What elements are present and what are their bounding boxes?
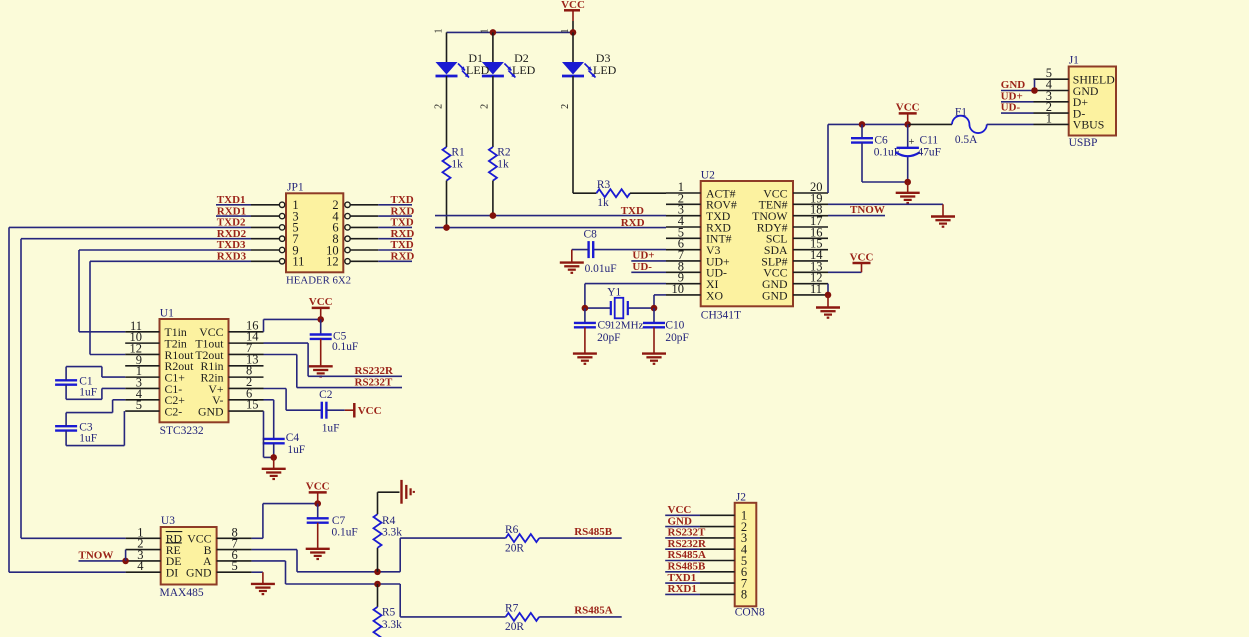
svg-text:RS485B: RS485B: [668, 561, 707, 573]
svg-text:1: 1: [1046, 111, 1052, 125]
svg-text:RS232T: RS232T: [355, 376, 394, 388]
svg-text:C2-: C2-: [165, 404, 183, 418]
svg-text:VCC: VCC: [309, 296, 333, 308]
svg-text:2: 2: [560, 104, 571, 109]
svg-text:VCC: VCC: [668, 504, 692, 516]
svg-text:C6: C6: [874, 135, 888, 147]
svg-text:20pF: 20pF: [665, 332, 688, 344]
svg-text:1: 1: [480, 29, 491, 34]
svg-text:R5: R5: [382, 606, 396, 618]
svg-text:C2: C2: [319, 389, 333, 401]
svg-text:20pF: 20pF: [597, 332, 620, 344]
svg-text:J1: J1: [1069, 54, 1079, 66]
svg-text:0.01uF: 0.01uF: [585, 263, 617, 275]
svg-text:LED: LED: [466, 63, 490, 77]
svg-text:1: 1: [433, 28, 444, 33]
svg-text:U1: U1: [160, 307, 174, 319]
svg-text:8: 8: [741, 588, 747, 602]
svg-text:VCC: VCC: [358, 405, 382, 417]
svg-text:VCC: VCC: [306, 481, 330, 493]
svg-text:RXD: RXD: [391, 251, 415, 263]
svg-text:UD+: UD+: [1001, 90, 1023, 102]
svg-text:R6: R6: [505, 524, 519, 536]
svg-text:2: 2: [480, 104, 491, 109]
svg-text:LED: LED: [593, 63, 617, 77]
svg-text:TXD1: TXD1: [668, 572, 697, 584]
svg-text:J2: J2: [736, 491, 746, 503]
svg-text:RS485A: RS485A: [668, 549, 707, 561]
svg-text:XO: XO: [706, 288, 724, 302]
svg-text:F1: F1: [955, 106, 967, 118]
svg-text:RS232R: RS232R: [668, 538, 708, 550]
svg-text:R2: R2: [497, 146, 511, 158]
svg-text:3.3k: 3.3k: [382, 526, 402, 538]
svg-text:USBP: USBP: [1069, 137, 1098, 149]
svg-text:10: 10: [672, 282, 685, 296]
svg-text:VBUS: VBUS: [1073, 118, 1104, 132]
svg-text:RS232R: RS232R: [355, 365, 395, 377]
svg-text:STC3232: STC3232: [160, 425, 204, 437]
svg-text:GND: GND: [186, 566, 212, 580]
svg-text:MAX485: MAX485: [160, 587, 204, 599]
svg-text:RXD: RXD: [621, 217, 645, 229]
svg-text:TXD: TXD: [391, 217, 414, 229]
svg-text:C7: C7: [332, 515, 346, 527]
svg-text:0.5A: 0.5A: [955, 134, 978, 146]
svg-text:1uF: 1uF: [322, 423, 340, 435]
svg-text:LED: LED: [512, 63, 536, 77]
svg-text:R7: R7: [505, 603, 519, 615]
svg-text:UD+: UD+: [632, 249, 654, 261]
svg-text:11: 11: [292, 255, 304, 269]
svg-text:1: 1: [560, 28, 571, 33]
svg-text:C4: C4: [286, 432, 300, 444]
svg-text:RXD: RXD: [391, 228, 415, 240]
svg-text:Y1: Y1: [607, 287, 621, 299]
svg-text:12: 12: [326, 255, 339, 269]
svg-text:1uF: 1uF: [79, 387, 97, 399]
svg-text:1k: 1k: [597, 197, 609, 209]
svg-text:UD-: UD-: [632, 261, 652, 273]
svg-text:0.1uF: 0.1uF: [332, 527, 358, 539]
svg-text:11: 11: [810, 282, 822, 296]
svg-text:TXD: TXD: [391, 194, 414, 206]
svg-text:GND: GND: [198, 404, 224, 418]
svg-text:1k: 1k: [497, 158, 509, 170]
svg-text:R3: R3: [597, 179, 611, 191]
svg-text:RS485A: RS485A: [574, 605, 613, 617]
svg-text:1uF: 1uF: [79, 433, 97, 445]
svg-text:C8: C8: [584, 229, 598, 241]
svg-text:CON8: CON8: [735, 607, 765, 619]
svg-text:0.1uF: 0.1uF: [332, 341, 358, 353]
svg-text:R4: R4: [382, 515, 396, 527]
svg-text:+: +: [909, 137, 915, 148]
svg-text:HEADER 6X2: HEADER 6X2: [286, 274, 351, 286]
svg-text:4: 4: [137, 559, 144, 573]
svg-text:C11: C11: [920, 135, 939, 147]
svg-text:UD-: UD-: [1001, 102, 1021, 114]
svg-text:RS485B: RS485B: [574, 526, 613, 538]
svg-text:RXD: RXD: [391, 205, 415, 217]
svg-text:TXD: TXD: [391, 239, 414, 251]
svg-text:U2: U2: [701, 169, 715, 181]
svg-text:TNOW: TNOW: [850, 204, 885, 216]
svg-text:JP1: JP1: [287, 181, 304, 193]
svg-text:R1: R1: [451, 146, 465, 158]
svg-text:20R: 20R: [505, 542, 524, 554]
svg-text:5: 5: [136, 398, 142, 412]
svg-text:DI: DI: [166, 566, 179, 580]
svg-text:15: 15: [246, 398, 259, 412]
svg-text:1k: 1k: [451, 158, 463, 170]
svg-text:2: 2: [433, 104, 444, 109]
svg-text:TNOW: TNOW: [79, 549, 114, 561]
svg-text:C3: C3: [79, 421, 93, 433]
svg-text:VCC: VCC: [850, 251, 874, 263]
svg-text:5: 5: [232, 559, 238, 573]
svg-text:C10: C10: [665, 319, 684, 331]
svg-text:GND: GND: [762, 288, 788, 302]
svg-text:1uF: 1uF: [287, 444, 305, 456]
svg-text:RS232T: RS232T: [668, 527, 707, 539]
svg-text:GND: GND: [668, 515, 693, 527]
svg-text:RXD1: RXD1: [668, 583, 697, 595]
svg-text:CH341T: CH341T: [701, 309, 741, 321]
svg-text:20R: 20R: [505, 621, 524, 633]
svg-text:TXD: TXD: [621, 205, 644, 217]
svg-text:GND: GND: [1001, 79, 1026, 91]
svg-text:12MHz: 12MHz: [610, 319, 644, 331]
svg-text:47uF: 47uF: [918, 146, 941, 158]
svg-text:3.3k: 3.3k: [382, 619, 402, 631]
svg-text:VCC: VCC: [896, 102, 920, 114]
svg-text:U3: U3: [161, 515, 175, 527]
